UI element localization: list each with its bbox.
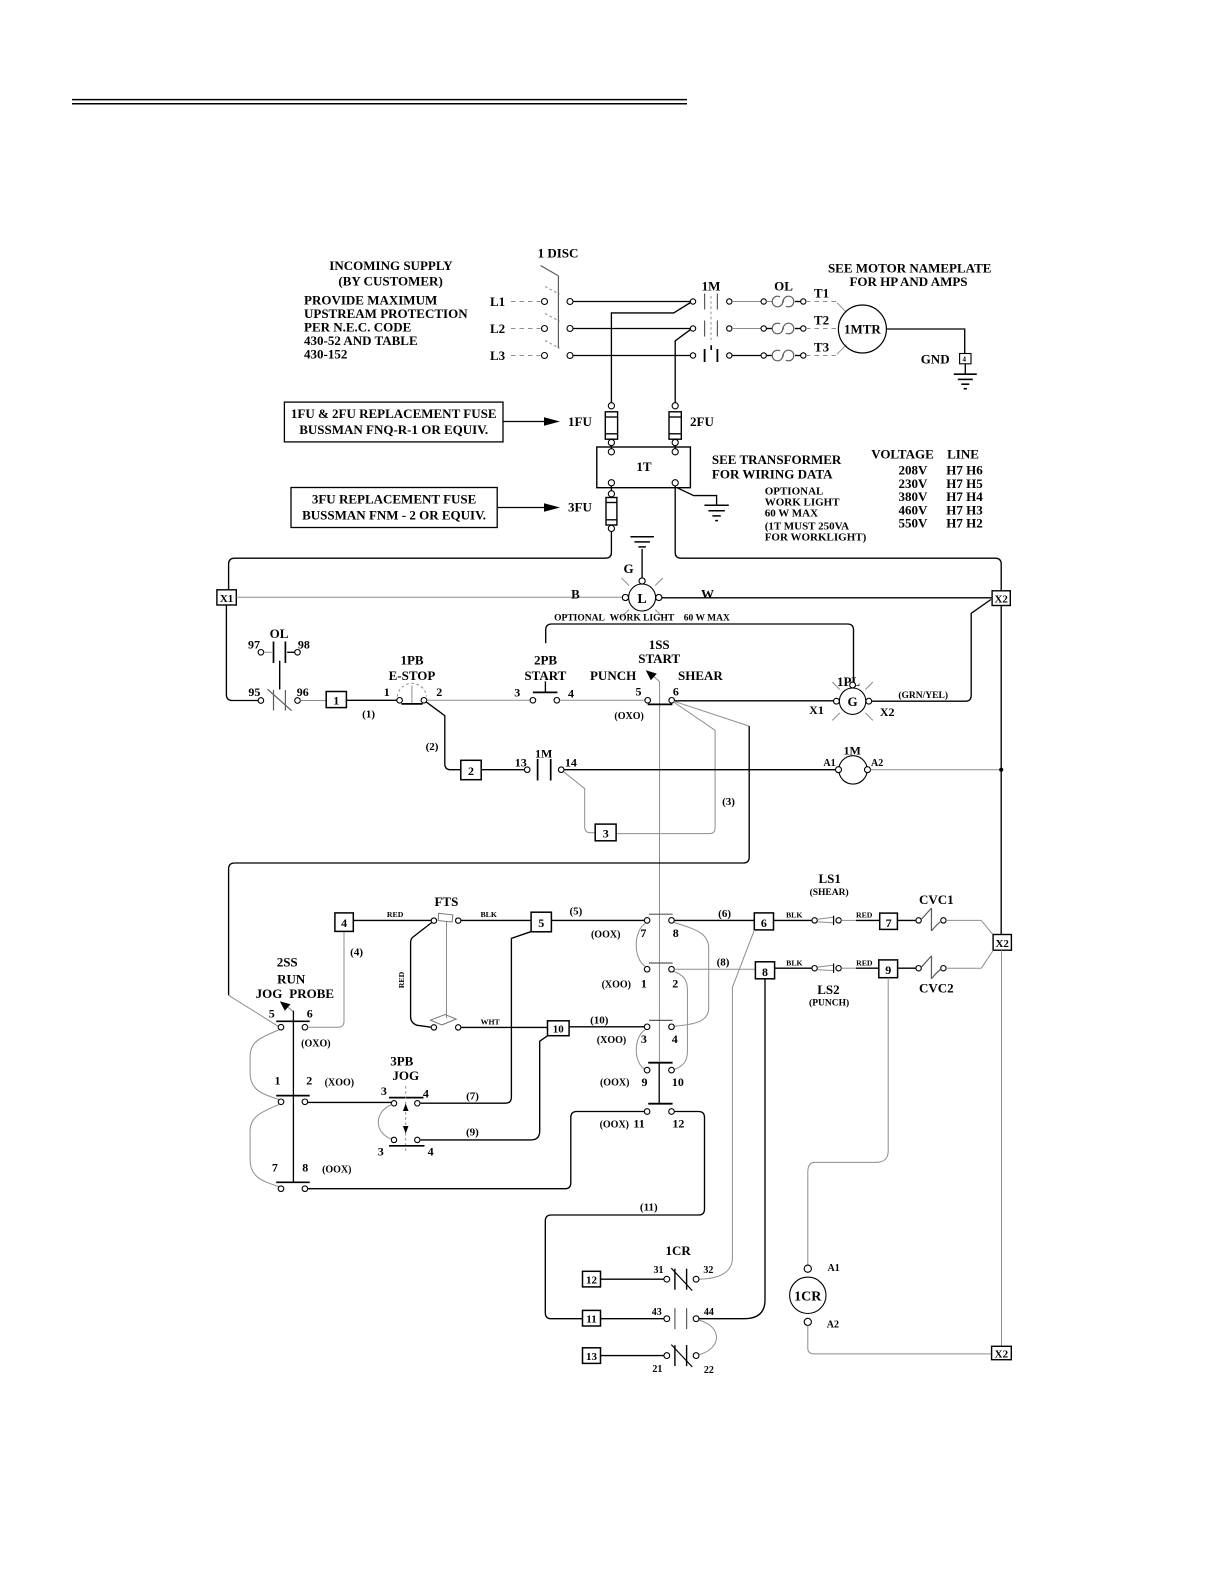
varistor CVC2 bbox=[898, 956, 954, 995]
svg-text:FOR WORKLIGHT): FOR WORKLIGHT) bbox=[765, 531, 867, 543]
terminal box 11 bbox=[583, 1310, 601, 1326]
wire jumper 44 to 22 bbox=[699, 1320, 717, 1355]
svg-text:(4): (4) bbox=[350, 947, 363, 959]
svg-text:3: 3 bbox=[641, 1032, 647, 1046]
note: incoming supply text bbox=[304, 258, 468, 362]
wire jumper 2SS 1 to 7 bbox=[250, 1104, 279, 1186]
node T2 bbox=[806, 313, 838, 329]
svg-text:31: 31 bbox=[654, 1265, 664, 1276]
svg-text:(OOX): (OOX) bbox=[591, 930, 620, 941]
wire box 11 to 1CR 43 bbox=[601, 1318, 664, 1320]
wire 1T secondary to X2 rail bbox=[675, 486, 1001, 591]
lamp L work light bbox=[622, 578, 663, 617]
node T3 bbox=[806, 340, 847, 356]
svg-text:60 W MAX: 60 W MAX bbox=[765, 507, 818, 519]
limit switch LS1 shear bbox=[810, 871, 849, 925]
contactor 1M power contacts bbox=[690, 279, 732, 363]
svg-text:9: 9 bbox=[885, 963, 891, 977]
varistor CVC1 bbox=[897, 892, 953, 931]
terminal box 6 bbox=[754, 913, 773, 930]
svg-text:1FU & 2FU REPLACEMENT FUSE: 1FU & 2FU REPLACEMENT FUSE bbox=[291, 406, 497, 421]
terminal X1 bbox=[217, 590, 236, 605]
svg-text:A2: A2 bbox=[827, 1319, 839, 1330]
wire tap L1 to 1FU bbox=[611, 303, 690, 406]
svg-text:BLK: BLK bbox=[786, 958, 802, 967]
svg-text:1 DISC: 1 DISC bbox=[538, 246, 579, 261]
svg-text:1: 1 bbox=[333, 694, 339, 708]
wire CVC1 to X2 bbox=[946, 920, 993, 934]
wire lamp to X2 bbox=[662, 597, 992, 599]
svg-text:1PB: 1PB bbox=[400, 653, 423, 668]
svg-text:(SHEAR): (SHEAR) bbox=[810, 887, 849, 898]
svg-text:4: 4 bbox=[672, 1032, 678, 1046]
wire 2PB to 1SS bbox=[560, 699, 645, 701]
wire X1 rail vertical to rung 1 bbox=[226, 605, 258, 701]
svg-text:7: 7 bbox=[640, 926, 646, 940]
wire box 9 to coil 1CR A1 bbox=[808, 978, 888, 1265]
svg-text:8: 8 bbox=[302, 1160, 308, 1174]
svg-text:(1): (1) bbox=[362, 708, 375, 720]
svg-text:3FU REPLACEMENT FUSE: 3FU REPLACEMENT FUSE bbox=[312, 492, 476, 507]
wire FTS red loop bbox=[397, 923, 432, 1028]
wire 2SS 2 to 3PB bbox=[308, 1101, 392, 1103]
wire X2 rail vertical bbox=[1000, 606, 1002, 935]
svg-text:T1: T1 bbox=[814, 286, 829, 301]
note: see transformer for wiring data bbox=[712, 452, 867, 543]
svg-text:32: 32 bbox=[703, 1265, 713, 1276]
terminal box 9 bbox=[879, 960, 898, 978]
wire box 6 to LS1 bbox=[774, 911, 812, 921]
overload OL heaters bbox=[761, 279, 806, 361]
svg-text:(10): (10) bbox=[590, 1014, 609, 1026]
node T1 bbox=[806, 286, 847, 313]
svg-text:6: 6 bbox=[307, 1006, 313, 1020]
svg-text:FTS: FTS bbox=[434, 894, 458, 909]
terminal box 3 bbox=[595, 824, 616, 841]
wire tap L2 to 2FU bbox=[675, 330, 690, 406]
svg-text:22: 22 bbox=[704, 1365, 714, 1376]
wire box 8 to LS2 bbox=[775, 958, 812, 968]
wire motor to ground bbox=[886, 329, 964, 354]
coil 1CR bbox=[790, 1263, 840, 1331]
terminal box 4 bbox=[335, 913, 353, 932]
svg-text:6: 6 bbox=[761, 916, 767, 930]
svg-text:VOLTAGE: VOLTAGE bbox=[871, 447, 934, 462]
wire node 6 branch to lower section bbox=[229, 701, 750, 995]
wire X1 rail horizontal bbox=[236, 596, 622, 598]
svg-text:550V: 550V bbox=[899, 516, 929, 531]
contact OL NC 95-96 bbox=[248, 685, 308, 711]
svg-text:BLK: BLK bbox=[480, 910, 496, 919]
svg-text:L: L bbox=[637, 592, 646, 607]
svg-text:X2: X2 bbox=[880, 705, 895, 719]
wire box 10 to 1SS 3 bbox=[569, 1014, 644, 1026]
svg-text:INCOMING SUPPLY: INCOMING SUPPLY bbox=[329, 258, 453, 273]
wire box 8 branch down to 1CR 44 bbox=[699, 979, 765, 1319]
svg-text:OL: OL bbox=[270, 626, 289, 641]
svg-text:2FU: 2FU bbox=[690, 414, 714, 429]
contact 2SS 5-6 bbox=[269, 1006, 331, 1049]
svg-text:A1: A1 bbox=[827, 1263, 839, 1274]
svg-text:7: 7 bbox=[886, 916, 892, 930]
wire FTS to box 5 bbox=[461, 910, 531, 920]
svg-text:6: 6 bbox=[673, 684, 679, 698]
svg-text:3: 3 bbox=[378, 1145, 384, 1159]
svg-text:1: 1 bbox=[275, 1073, 281, 1087]
svg-text:RUN: RUN bbox=[277, 972, 306, 987]
wire feeder diagonal to 2SS 5 bbox=[229, 995, 279, 1026]
svg-text:LS1: LS1 bbox=[818, 871, 840, 886]
svg-text:OL: OL bbox=[774, 279, 793, 294]
svg-text:10: 10 bbox=[553, 1024, 565, 1036]
table voltage line bbox=[871, 447, 983, 531]
svg-text:JOG: JOG bbox=[392, 1068, 419, 1083]
terminal box 2 bbox=[461, 760, 481, 779]
svg-text:1CR: 1CR bbox=[794, 1289, 822, 1304]
wire coil 1M to X2 rail bbox=[871, 768, 1004, 772]
svg-text:(OOX): (OOX) bbox=[322, 1164, 351, 1175]
limit switch LS2 punch bbox=[809, 964, 849, 1009]
pushbutton 2PB START NO bbox=[514, 652, 574, 703]
contact 1SS 7-8 bbox=[591, 914, 679, 940]
terminal X2 middle bbox=[993, 935, 1011, 951]
wire box 10 branch down (9) bbox=[421, 1036, 548, 1140]
svg-text:E-STOP: E-STOP bbox=[389, 668, 436, 683]
foot switch FTS bbox=[431, 894, 461, 1030]
wire branch (2) from terminal 2 bbox=[426, 702, 461, 770]
wire 1PL to X2 bbox=[872, 600, 991, 702]
transformer 1T bbox=[597, 447, 691, 488]
svg-text:X2: X2 bbox=[995, 938, 1009, 950]
wire 96 to terminal 1 bbox=[300, 700, 326, 702]
svg-text:44: 44 bbox=[704, 1307, 714, 1318]
svg-text:B: B bbox=[571, 587, 580, 602]
wire LS2 to box 9 bbox=[841, 958, 879, 968]
svg-text:7: 7 bbox=[272, 1160, 278, 1174]
wire 1SS 2 to box 8 bbox=[674, 956, 755, 969]
svg-text:95: 95 bbox=[248, 685, 260, 699]
terminal X2 bottom bbox=[992, 1346, 1012, 1360]
wire box 5 branch down (7) bbox=[421, 932, 531, 1103]
svg-text:9: 9 bbox=[642, 1075, 648, 1089]
callout box 1FU 2FU replacement fuse bbox=[284, 402, 560, 442]
ground symbol at motor bbox=[954, 364, 977, 389]
svg-text:(XOO): (XOO) bbox=[597, 1035, 626, 1046]
svg-text:3PB: 3PB bbox=[390, 1054, 413, 1069]
svg-text:4: 4 bbox=[568, 686, 574, 700]
wire X2 rail lower bbox=[1001, 950, 1003, 1346]
terminal box 1 bbox=[326, 692, 346, 708]
svg-text:X1: X1 bbox=[220, 593, 233, 605]
node B bbox=[571, 587, 580, 602]
svg-text:1: 1 bbox=[384, 685, 390, 699]
terminal X2 top bbox=[992, 591, 1010, 606]
svg-text:11: 11 bbox=[633, 1116, 644, 1130]
wire number (1) bbox=[362, 708, 375, 720]
header double rule bbox=[72, 100, 687, 104]
svg-text:3FU: 3FU bbox=[568, 500, 592, 515]
svg-text:(9): (9) bbox=[466, 1126, 479, 1138]
terminal box 12 bbox=[583, 1271, 601, 1287]
contact 1CR NC 21-22 bbox=[652, 1345, 714, 1377]
svg-text:FOR HP AND AMPS: FOR HP AND AMPS bbox=[849, 274, 967, 289]
svg-text:(BY CUSTOMER): (BY CUSTOMER) bbox=[338, 274, 442, 289]
svg-text:3: 3 bbox=[514, 686, 520, 700]
svg-text:1CR: 1CR bbox=[665, 1243, 691, 1258]
svg-text:97: 97 bbox=[248, 637, 260, 651]
wire jumper 1SS 8 to 4 bbox=[674, 923, 709, 1027]
svg-text:H7 H2: H7 H2 bbox=[946, 516, 982, 531]
fuse 3FU bbox=[568, 486, 617, 532]
svg-text:96: 96 bbox=[297, 685, 309, 699]
contact OL auxiliary NO 97-98 bbox=[248, 626, 310, 690]
svg-text:START: START bbox=[524, 668, 566, 683]
fuse 1FU bbox=[568, 403, 618, 449]
ground symbol above work light bbox=[630, 537, 654, 578]
pilot light 1PL green bbox=[809, 674, 948, 721]
contact 1CR NC 31-32 bbox=[654, 1265, 714, 1291]
svg-text:RED: RED bbox=[387, 910, 404, 919]
wire 1M to OL T1 bbox=[732, 301, 761, 303]
svg-text:8: 8 bbox=[762, 965, 768, 979]
svg-text:(6): (6) bbox=[718, 908, 731, 920]
relay label 1CR bbox=[665, 1243, 691, 1258]
node L2 bbox=[490, 321, 541, 336]
contact 2SS 1-2 bbox=[275, 1073, 355, 1104]
svg-text:2: 2 bbox=[436, 685, 442, 699]
svg-text:L3: L3 bbox=[490, 348, 506, 363]
svg-text:3: 3 bbox=[381, 1084, 387, 1098]
svg-text:5: 5 bbox=[269, 1006, 275, 1020]
svg-text:2SS: 2SS bbox=[277, 954, 298, 969]
terminal box 13 bbox=[583, 1348, 601, 1364]
svg-text:L1: L1 bbox=[490, 294, 505, 309]
svg-text:CVC2: CVC2 bbox=[919, 980, 954, 995]
svg-text:WHT: WHT bbox=[481, 1017, 501, 1026]
svg-text:(OOX): (OOX) bbox=[600, 1119, 629, 1130]
svg-text:(OOX): (OOX) bbox=[600, 1078, 629, 1089]
svg-text:A2: A2 bbox=[871, 758, 883, 769]
svg-text:4: 4 bbox=[963, 356, 967, 364]
svg-text:(OXO): (OXO) bbox=[301, 1039, 330, 1050]
svg-text:2: 2 bbox=[468, 764, 474, 778]
svg-text:(8): (8) bbox=[717, 956, 730, 968]
svg-text:(5): (5) bbox=[569, 905, 582, 917]
node G work light ground wire label bbox=[624, 561, 634, 576]
svg-text:21: 21 bbox=[652, 1364, 662, 1375]
wire jumper 1SS 2 to 10 bbox=[674, 972, 688, 1070]
wire 1M to OL T3 bbox=[732, 355, 761, 357]
wire 2SS 8 to 1SS 11 bbox=[308, 1112, 645, 1189]
wire box 12 to 1CR 31 bbox=[601, 1278, 664, 1280]
svg-text:(OXO): (OXO) bbox=[614, 711, 643, 722]
wire jumper 2SS 5 to 1 bbox=[250, 1030, 279, 1100]
svg-text:CVC1: CVC1 bbox=[919, 892, 954, 907]
svg-text:1SS: 1SS bbox=[649, 637, 670, 652]
svg-text:2: 2 bbox=[306, 1073, 312, 1087]
terminal box 5 bbox=[531, 912, 551, 932]
svg-text:RED: RED bbox=[856, 958, 873, 967]
wire 2SS 6 to terminal 4 bbox=[308, 931, 364, 1027]
svg-text:(2): (2) bbox=[426, 741, 439, 753]
svg-text:T3: T3 bbox=[814, 340, 830, 355]
contact 1SS 3-4 bbox=[597, 1020, 678, 1045]
svg-text:(XOO): (XOO) bbox=[602, 980, 631, 991]
node W bbox=[701, 587, 714, 602]
wire E-stop to 2PB bbox=[427, 699, 530, 701]
svg-text:10: 10 bbox=[672, 1075, 684, 1089]
svg-text:SEE TRANSFORMER: SEE TRANSFORMER bbox=[712, 452, 842, 467]
svg-text:G: G bbox=[624, 561, 634, 576]
svg-text:G: G bbox=[848, 694, 858, 709]
svg-text:FOR WIRING DATA: FOR WIRING DATA bbox=[712, 466, 833, 481]
svg-text:(3): (3) bbox=[722, 796, 735, 808]
disconnect switch 1 DISC bbox=[538, 246, 579, 359]
svg-text:12: 12 bbox=[672, 1116, 684, 1130]
svg-text:T2: T2 bbox=[814, 313, 829, 328]
svg-text:PUNCH: PUNCH bbox=[590, 668, 636, 683]
svg-text:5: 5 bbox=[538, 916, 544, 930]
wire 1SS 8 to box 6 bbox=[674, 908, 754, 920]
svg-text:JOG: JOG bbox=[256, 986, 283, 1001]
wire box 5 to 1SS 7 bbox=[551, 905, 644, 920]
svg-text:43: 43 bbox=[652, 1307, 662, 1318]
svg-text:5: 5 bbox=[636, 684, 642, 698]
svg-text:1T: 1T bbox=[636, 459, 652, 474]
svg-text:BUSSMAN FNM - 2 OR EQUIV.: BUSSMAN FNM - 2 OR EQUIV. bbox=[302, 508, 486, 523]
svg-text:3: 3 bbox=[603, 826, 609, 840]
wire coil 1CR A2 to X2 bbox=[808, 1326, 992, 1354]
svg-text:1M: 1M bbox=[535, 746, 552, 760]
ground symbol at 1T secondary bbox=[677, 488, 729, 521]
svg-text:(11): (11) bbox=[640, 1202, 658, 1214]
svg-text:2PB: 2PB bbox=[534, 652, 557, 667]
contact 2SS 7-8 bbox=[272, 1160, 352, 1191]
svg-text:RED: RED bbox=[856, 911, 873, 920]
svg-text:BUSSMAN FNQ-R-1 OR EQUIV.: BUSSMAN FNQ-R-1 OR EQUIV. bbox=[299, 422, 488, 437]
svg-text:1FU: 1FU bbox=[568, 414, 592, 429]
motor 1MTR bbox=[838, 305, 886, 353]
svg-text:A1: A1 bbox=[823, 758, 835, 769]
terminal box 8 bbox=[755, 962, 774, 979]
svg-text:(GRN/YEL): (GRN/YEL) bbox=[898, 690, 948, 701]
svg-text:L2: L2 bbox=[490, 321, 505, 336]
pushbutton 1PB E-STOP NC bbox=[384, 653, 443, 704]
svg-text:RED: RED bbox=[397, 971, 406, 988]
svg-text:430-152: 430-152 bbox=[304, 347, 347, 362]
svg-text:14: 14 bbox=[565, 755, 577, 769]
coil 1M bbox=[823, 744, 883, 785]
wire terminal 1 to E-stop bbox=[346, 699, 396, 701]
wire 14 to coil 1M bbox=[564, 769, 836, 771]
svg-text:12: 12 bbox=[586, 1275, 598, 1287]
wire L3 to 1M bbox=[573, 355, 690, 357]
selector 2SS RUN JOG PROBE bbox=[256, 954, 334, 1183]
svg-text:1PL: 1PL bbox=[837, 674, 860, 689]
wire 14 branch to terminal 3 bbox=[564, 772, 596, 833]
svg-text:2: 2 bbox=[672, 977, 678, 991]
wire 3FU to X1 rail bbox=[229, 532, 612, 590]
svg-text:X2: X2 bbox=[994, 594, 1008, 606]
svg-text:8: 8 bbox=[673, 926, 679, 940]
svg-text:4: 4 bbox=[341, 916, 347, 930]
svg-text:(XOO): (XOO) bbox=[325, 1077, 354, 1088]
svg-text:11: 11 bbox=[586, 1314, 596, 1326]
node L3 bbox=[490, 348, 541, 363]
wire CVC2 to X2 bbox=[946, 951, 993, 969]
terminal GND bbox=[921, 352, 971, 367]
note: optional work light 60 W MAX bbox=[554, 614, 730, 624]
wire FTS to box 10 WHT bbox=[461, 1017, 548, 1027]
terminal box 10 bbox=[548, 1021, 570, 1036]
terminal box 7 bbox=[880, 913, 898, 930]
svg-text:W: W bbox=[701, 587, 714, 602]
svg-text:4: 4 bbox=[428, 1145, 434, 1159]
contact 1SS 1-2 bbox=[602, 963, 679, 991]
svg-text:13: 13 bbox=[586, 1351, 598, 1363]
svg-text:LINE: LINE bbox=[947, 447, 979, 462]
svg-text:LS2: LS2 bbox=[817, 982, 839, 997]
svg-text:X1: X1 bbox=[809, 703, 824, 717]
svg-text:OPTIONAL WORK LIGHT 60 W MAX: OPTIONAL WORK LIGHT 60 W MAX bbox=[554, 614, 730, 624]
wire jumper 1SS 7 to 1 bbox=[636, 924, 645, 967]
svg-text:PROBE: PROBE bbox=[289, 986, 334, 1001]
contact 1M auxiliary NO 13-14 bbox=[515, 746, 577, 780]
svg-text:98: 98 bbox=[298, 637, 310, 651]
wire jumper 1SS 3 to 9 bbox=[636, 1030, 645, 1070]
svg-text:(7): (7) bbox=[466, 1091, 479, 1103]
svg-text:4: 4 bbox=[423, 1087, 429, 1101]
wire box 6 branch to 1CR 32 bbox=[699, 930, 754, 1279]
wire node 6 to 1PL bbox=[675, 700, 837, 702]
svg-text:GND: GND bbox=[921, 352, 950, 367]
node L1 bbox=[490, 294, 541, 309]
wire 1M to OL T2 bbox=[732, 328, 761, 330]
svg-text:1MTR: 1MTR bbox=[844, 322, 881, 337]
contact 1SS 11-12 bbox=[600, 1104, 685, 1131]
callout box 3FU replacement fuse bbox=[291, 488, 560, 528]
wire L1 to 1M bbox=[573, 301, 690, 303]
contact 1CR NO 43-44 bbox=[652, 1307, 714, 1329]
svg-text:1M: 1M bbox=[702, 279, 721, 294]
svg-text:SHEAR: SHEAR bbox=[678, 668, 723, 683]
wire work light tap bracket bbox=[546, 624, 854, 684]
wire box 2 to 1M contact 13 bbox=[481, 769, 524, 771]
svg-text:X2: X2 bbox=[995, 1348, 1009, 1360]
svg-text:(PUNCH): (PUNCH) bbox=[809, 998, 849, 1009]
wire LS1 to box 7 bbox=[841, 911, 879, 921]
wire box 13 to 1CR 21 bbox=[601, 1355, 664, 1357]
selector 1SS START bbox=[590, 637, 723, 1063]
pushbutton 3PB JOG bbox=[378, 1054, 434, 1159]
svg-text:1: 1 bbox=[641, 977, 647, 991]
wire 1SS 12 to terminal 11 path (11) bbox=[545, 1112, 704, 1319]
svg-text:BLK: BLK bbox=[786, 911, 802, 920]
wire L2 to 1M bbox=[573, 328, 690, 330]
note: motor nameplate bbox=[828, 261, 991, 289]
fuse 2FU bbox=[669, 403, 714, 449]
wire node 6 branch to (3) bbox=[616, 702, 735, 834]
contact 1SS 9-10 bbox=[600, 1063, 684, 1104]
svg-text:START: START bbox=[638, 651, 680, 666]
wire box 4 to FTS bbox=[353, 910, 431, 920]
